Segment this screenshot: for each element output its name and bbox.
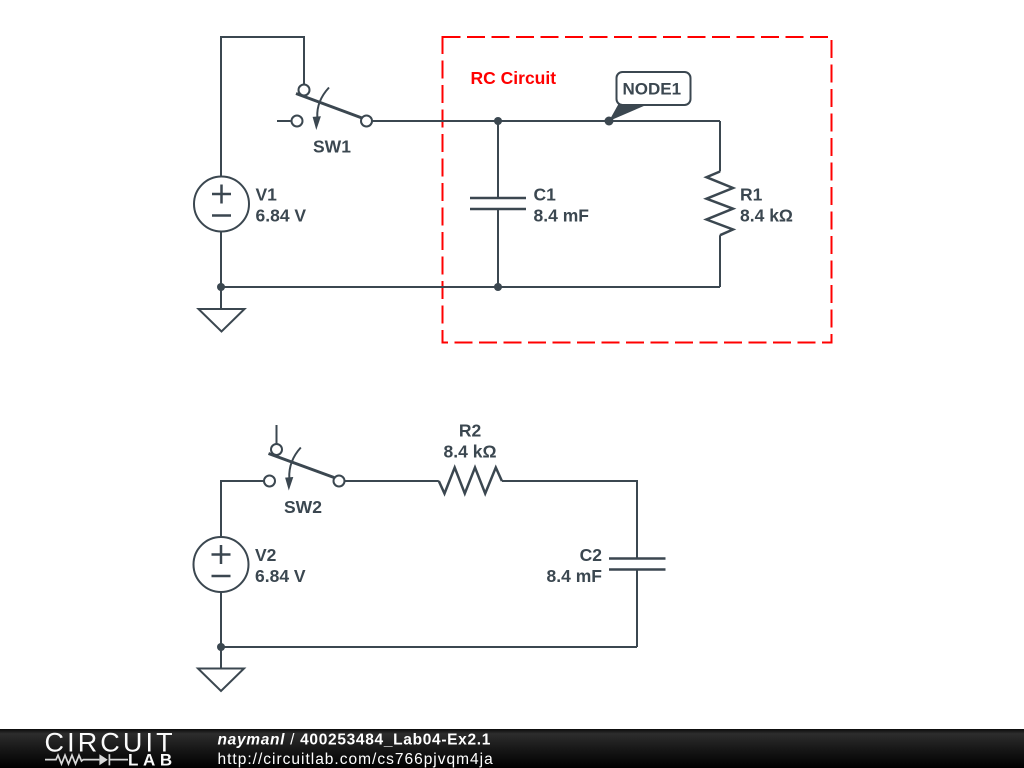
ground GND2 (198, 647, 244, 691)
C1 top plate (470, 197, 526, 200)
svg-text:LAB: LAB (128, 751, 177, 768)
svg-text:6.84 V: 6.84 V (256, 206, 307, 226)
svg-text:RC Circuit: RC Circuit (471, 68, 557, 88)
C2 bottom plate (609, 568, 666, 571)
svg-text:8.4 mF: 8.4 mF (534, 206, 590, 226)
SW2 top NC terminal (271, 444, 282, 455)
V2 minus sign (212, 575, 231, 578)
svg-text:C1: C1 (534, 185, 557, 205)
SW1 left NC terminal (292, 116, 303, 127)
svg-text:SW2: SW2 (284, 497, 322, 517)
node NODE1 junction dot (605, 117, 614, 126)
SW2 left terminal (264, 476, 275, 487)
R1 bottom lead wire (719, 235, 721, 287)
junction node at C1 top (494, 117, 502, 125)
voltage source V2 (194, 537, 249, 592)
red dashed annotation box "RC Circuit" (443, 37, 832, 343)
ground GND1 (199, 287, 245, 332)
SW2 right terminal (334, 476, 345, 487)
SW1 left NC stub wire (277, 120, 291, 122)
wire SW1 to R1 top (372, 120, 720, 122)
capacitor C1 (470, 121, 526, 287)
wire R2 to top-right corner and down to C2 (502, 481, 637, 558)
svg-text:V2: V2 (255, 545, 277, 565)
V2 plus sign (212, 545, 231, 564)
R2 zigzag body (439, 468, 502, 494)
SW1 blade (296, 94, 362, 119)
svg-text:8.4 kΩ: 8.4 kΩ (444, 442, 497, 462)
svg-text:R1: R1 (740, 185, 763, 205)
C1 top lead wire (497, 121, 499, 197)
V1 plus sign (212, 185, 231, 204)
SW2 blade (269, 454, 335, 478)
switch SW2 (264, 425, 345, 491)
svg-text:R2: R2 (459, 421, 482, 441)
svg-text:SW1: SW1 (313, 137, 351, 157)
SW1 actuation arc (317, 88, 329, 118)
node label NODE1 callout (609, 72, 691, 121)
R1 zigzag body (707, 172, 734, 236)
svg-text:V1: V1 (256, 185, 278, 205)
capacitor C2 (609, 559, 666, 648)
junction dot at C1 bottom (494, 283, 502, 291)
wire bottom horizontal (bottom circuit) (221, 646, 637, 648)
wire top horizontal (220, 36, 304, 38)
wire bottom horizontal (top circuit) (221, 286, 720, 288)
wire V2 top to SW2 (221, 481, 264, 537)
resistor R1 (707, 121, 734, 287)
annotation label RC Circuit (471, 68, 557, 88)
SW2 top NC stub wire (276, 425, 278, 444)
SW2 arrowhead (285, 477, 293, 491)
wire V1 top to top-left corner (220, 37, 222, 176)
wire down to SW1 (303, 36, 305, 85)
V1 minus sign (212, 214, 231, 217)
svg-text:8.4 mF: 8.4 mF (547, 566, 603, 586)
C1 bottom lead wire (497, 210, 499, 287)
C2 bottom lead wire (636, 571, 638, 648)
wire V2 bottom to ground junction (220, 592, 222, 647)
SW2 actuation arc (289, 448, 301, 479)
svg-text:C2: C2 (580, 545, 603, 565)
R1 top lead wire (719, 121, 721, 172)
svg-text:naymanl / 400253484_Lab04-Ex2.: naymanl / 400253484_Lab04-Ex2.1 (218, 732, 492, 749)
svg-text:6.84 V: 6.84 V (255, 566, 306, 586)
CircuitLab logo mini schematic (resistor + diode) (45, 754, 128, 765)
wire SW2 to R2 (345, 480, 439, 482)
resistor R2 (439, 468, 502, 494)
svg-text:http://circuitlab.com/cs766pjv: http://circuitlab.com/cs766pjvqm4ja (218, 751, 494, 768)
voltage source V1 (194, 177, 249, 232)
SW1 arrowhead (313, 116, 321, 130)
SW1 right terminal (361, 116, 372, 127)
junction dot at V2 ground (217, 643, 225, 651)
switch SW1 (277, 85, 372, 131)
SW1 top terminal (299, 85, 310, 96)
C2 top plate (609, 557, 666, 560)
svg-text:8.4 kΩ: 8.4 kΩ (740, 206, 793, 226)
junction dot at V1 ground (217, 283, 225, 291)
svg-text:NODE1: NODE1 (623, 80, 682, 99)
wire V1 bottom to ground junction (220, 232, 222, 288)
C1 bottom plate (470, 208, 526, 211)
